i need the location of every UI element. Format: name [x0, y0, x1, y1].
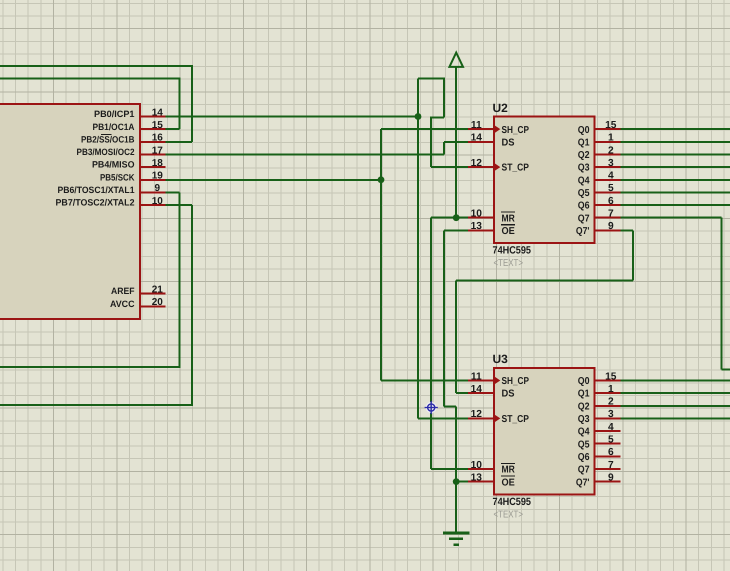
wire PB1 net to pin 15 [165, 128, 179, 130]
svg-text:14: 14 [471, 133, 483, 144]
svg-text:DS: DS [502, 137, 515, 148]
overline of U3 OE [501, 475, 515, 477]
wire latch net vertical up [417, 79, 419, 117]
wire PB1 net vertical [179, 79, 181, 129]
MCU pin 10 PB7/TOSC2/XTAL2 [140, 204, 166, 206]
svg-text:AREF: AREF [111, 286, 135, 296]
U3 pin 10 MR stub [468, 468, 494, 470]
U3 pin 2 Q2 stub [595, 405, 621, 407]
MCU pin 17 PB3/MOSI/OC2 [140, 153, 166, 155]
svg-text:4: 4 [608, 422, 614, 433]
wire Q7 net exit right [721, 368, 730, 370]
svg-text:Q7': Q7' [576, 226, 590, 237]
wire latch net to U2 ST_CP vertical [430, 117, 432, 167]
MCU pin 18 PB4/MISO [140, 166, 166, 168]
svg-text:SH_CP: SH_CP [502, 125, 530, 136]
U2 pin 13 OE stub [468, 229, 494, 231]
U3 pin 12 clock arrow [495, 415, 501, 423]
wire Q7' cascade vertical down [632, 230, 634, 280]
svg-text:PB2/SS/OC1B: PB2/SS/OC1B [81, 134, 135, 144]
wire PB0 latch net from pin 14 [165, 116, 418, 118]
svg-text:9: 9 [608, 472, 614, 483]
svg-text:13: 13 [471, 221, 483, 232]
MCU U1 body (ATmega port B section) [0, 104, 140, 319]
svg-text:10: 10 [152, 196, 164, 207]
svg-text:PB1/OC1A: PB1/OC1A [93, 122, 135, 132]
svg-text:PB5/SCK: PB5/SCK [100, 172, 135, 182]
svg-text:3: 3 [608, 409, 614, 420]
U3 pin 13 OE stub [468, 481, 494, 483]
wire U3 Q0 out [621, 379, 730, 381]
U3 pin 1 Q1 stub [595, 392, 621, 394]
wire U2 Q3 out [621, 166, 730, 168]
wire latch net staple right vertical [443, 79, 445, 118]
U2 pin 15 Q0 stub [595, 128, 621, 130]
U2 pin 14 DS stub [468, 141, 494, 143]
overline of SS in PB2/SS/OC1B [101, 134, 112, 136]
svg-text:17: 17 [152, 145, 164, 156]
svg-text:6: 6 [608, 447, 614, 458]
svg-text:5: 5 [608, 183, 614, 194]
svg-text:MR: MR [502, 213, 516, 224]
U3 pin 3 Q3 stub [595, 417, 621, 419]
U3 pin 11 SH_CP stub [468, 379, 494, 381]
wire U3 Q3 out [621, 417, 730, 419]
MCU pin 19 PB5/SCK [140, 179, 166, 181]
wire VCC vertical from power arrow [455, 67, 457, 218]
svg-text:PB0/ICP1: PB0/ICP1 [94, 109, 135, 119]
wire U2 SH_CP feed [381, 128, 468, 130]
wire Q7' cascade horizontal [456, 280, 633, 282]
wire SCK net vertical [380, 129, 382, 380]
wire U2 Q5 out [621, 191, 730, 193]
junction ground at U3 OE [453, 478, 460, 485]
svg-text:Q2: Q2 [578, 150, 590, 161]
wire MOSI net vertical up [443, 142, 445, 155]
wire U2 Q0 out [621, 128, 730, 130]
svg-text:12: 12 [471, 158, 483, 169]
wire Q7 net vertical [720, 218, 722, 370]
wire U2 Q6 out [621, 204, 730, 206]
svg-text:AVCC: AVCC [110, 299, 135, 309]
svg-text:U2: U2 [493, 101, 509, 115]
junction SCK net at pin 19 wire [378, 176, 385, 183]
wire PB6 net bottom horizontal [0, 366, 181, 368]
svg-text:Q7': Q7' [576, 477, 590, 488]
svg-text:Q7: Q7 [578, 465, 590, 476]
svg-text:Q4: Q4 [578, 427, 590, 438]
svg-text:14: 14 [471, 384, 483, 395]
MCU pin 15 PB1/OC1A [140, 128, 166, 130]
wire PB6 net to pin 9 [165, 191, 179, 193]
svg-text:PB3/MOSI/OC2: PB3/MOSI/OC2 [77, 147, 135, 157]
wire latch net staple top [418, 78, 445, 80]
wire MOSI net from pin 17 [165, 153, 444, 155]
svg-text:9: 9 [155, 183, 161, 194]
U3 pin 14 DS stub [468, 392, 494, 394]
U2 pin 7 Q7 stub [595, 217, 621, 219]
svg-text:Q5: Q5 [578, 188, 590, 199]
svg-text:Q7: Q7 [578, 213, 590, 224]
ground symbol [443, 533, 470, 545]
svg-text:SH_CP: SH_CP [502, 376, 530, 387]
svg-text:Q0: Q0 [578, 125, 590, 136]
junction latch net at pin 14 wire [415, 113, 422, 120]
U3 pin 15 Q0 stub [595, 379, 621, 381]
wire PB1 net top horizontal [0, 78, 181, 80]
U3 pin 7 Q7 stub [595, 468, 621, 470]
wire U3 OE feed [456, 481, 468, 483]
wire PB6 net vertical down [179, 192, 181, 366]
svg-text:14: 14 [152, 107, 164, 118]
overline of U2 MR [501, 211, 515, 213]
svg-text:6: 6 [608, 196, 614, 207]
svg-text:1: 1 [608, 133, 614, 144]
U3 pin 6 Q6 stub [595, 455, 621, 457]
svg-text:4: 4 [608, 171, 614, 182]
overline of U3 MR [501, 462, 515, 464]
U3 pin 5 Q5 stub [595, 443, 621, 445]
U2 pin 4 Q4 stub [595, 179, 621, 181]
svg-text:12: 12 [471, 409, 483, 420]
wire latch net vertical down to U3 [417, 117, 419, 419]
svg-text:MR: MR [502, 465, 516, 476]
wire U3 Q1 out [621, 392, 730, 394]
svg-text:Q6: Q6 [578, 452, 590, 463]
svg-text:11: 11 [471, 120, 482, 131]
U3 pin 9 Q7' stub [595, 481, 621, 483]
svg-text:OE: OE [502, 226, 516, 237]
U2 pin 3 Q3 stub [595, 166, 621, 168]
svg-text:7: 7 [608, 209, 614, 220]
svg-text:3: 3 [608, 158, 614, 169]
wire U2 MR feed [431, 217, 468, 219]
wire OE net vertical to ground [455, 407, 457, 533]
MCU pin 14 PB0/ICP1 [140, 116, 166, 118]
MCU pin 21 AREF [140, 293, 166, 295]
overline of U2 OE [501, 224, 515, 226]
svg-text:PB4/MISO: PB4/MISO [92, 160, 135, 170]
wire U2 Q2 out [621, 153, 730, 155]
wire PB2 net to pin 16 [165, 141, 192, 143]
svg-text:OE: OE [502, 477, 516, 488]
wire U3 ST_CP feed [418, 417, 468, 419]
junction VCC at U2 MR [453, 214, 460, 221]
MCU pin 16 PB2/SS/OC1B [140, 141, 166, 143]
wire PB7 net bottom horizontal [0, 404, 193, 406]
svg-text:Q3: Q3 [578, 163, 590, 174]
svg-text:Q1: Q1 [578, 389, 590, 400]
svg-text:21: 21 [152, 284, 164, 295]
wire U2 Q1 out [621, 141, 730, 143]
wire U2 DS feed [444, 141, 468, 143]
svg-text:Q0: Q0 [578, 376, 590, 387]
svg-text:ST_CP: ST_CP [502, 414, 530, 425]
svg-text:11: 11 [471, 371, 482, 382]
wire U3 DS feed [456, 392, 468, 394]
U2 pin 2 Q2 stub [595, 153, 621, 155]
IC U3 74HC595 body [494, 368, 595, 495]
wire U2 ST_CP feed [431, 166, 468, 168]
MCU pin 9 PB6/TOSC1/XTAL1 [140, 191, 166, 193]
wire U3 MR feed [431, 468, 468, 470]
svg-text:15: 15 [152, 120, 164, 131]
svg-text:20: 20 [152, 297, 164, 308]
U2 pin 11 clock arrow [495, 125, 501, 133]
U2 pin 9 Q7' stub [595, 229, 621, 231]
wire latch net staple jog [430, 116, 444, 118]
U2 pin 10 MR stub [468, 217, 494, 219]
U2 pin 12 clock arrow [495, 163, 501, 171]
svg-text:Q6: Q6 [578, 201, 590, 212]
wire U2 Q4 out [621, 179, 730, 181]
wire MR net vertical to U3 [430, 218, 432, 469]
node origin marker (blue crosshair) [425, 401, 438, 414]
svg-text:1: 1 [608, 384, 614, 395]
svg-text:13: 13 [471, 472, 483, 483]
svg-text:2: 2 [608, 397, 614, 408]
U3 pin 11 clock arrow [495, 377, 501, 385]
svg-text:<TEXT>: <TEXT> [494, 509, 524, 520]
wire U2 Q7' out [621, 229, 633, 231]
wire PB2 net top horizontal [0, 65, 193, 67]
svg-text:Q3: Q3 [578, 414, 590, 425]
svg-text:18: 18 [152, 158, 164, 169]
svg-text:PB6/TOSC1/XTAL1: PB6/TOSC1/XTAL1 [58, 185, 135, 195]
power symbol VCC arrow [449, 53, 463, 67]
svg-text:2: 2 [608, 145, 614, 156]
U2 pin 5 Q5 stub [595, 191, 621, 193]
wire U2 OE feed [444, 229, 468, 231]
svg-text:ST_CP: ST_CP [502, 163, 530, 174]
wire SCK net from pin 19 [165, 179, 381, 181]
svg-text:Q5: Q5 [578, 439, 590, 450]
svg-text:19: 19 [152, 171, 164, 182]
wire U3 Q2 out [621, 405, 730, 407]
svg-text:74HC595: 74HC595 [493, 245, 532, 257]
MCU pin 20 AVCC [140, 305, 166, 307]
U2 pin 11 SH_CP stub [468, 128, 494, 130]
svg-text:U3: U3 [493, 352, 509, 366]
svg-text:PB7/TOSC2/XTAL2: PB7/TOSC2/XTAL2 [56, 198, 135, 208]
svg-text:74HC595: 74HC595 [493, 496, 532, 508]
svg-text:Q1: Q1 [578, 137, 590, 148]
svg-text:10: 10 [471, 460, 483, 471]
wire OE net vertical [443, 230, 445, 406]
wire U2 Q7 out [621, 217, 722, 219]
U3 pin 4 Q4 stub [595, 430, 621, 432]
U2 pin 1 Q1 stub [595, 141, 621, 143]
svg-text:10: 10 [471, 209, 483, 220]
wire PB7 net vertical down [191, 205, 193, 405]
U2 pin 12 ST_CP stub [468, 166, 494, 168]
wire PB2 net vertical [191, 66, 193, 142]
wire Q7' cascade vertical to U3 DS [455, 281, 457, 393]
U3 pin 12 ST_CP stub [468, 417, 494, 419]
wire OE net jog [444, 406, 456, 408]
svg-text:7: 7 [608, 460, 614, 471]
svg-text:5: 5 [608, 435, 614, 446]
svg-text:15: 15 [605, 371, 617, 382]
IC U2 74HC595 body [494, 117, 595, 244]
svg-text:Q4: Q4 [578, 175, 590, 186]
wire U3 SH_CP feed [381, 379, 468, 381]
svg-text:DS: DS [502, 389, 515, 400]
svg-text:Q2: Q2 [578, 401, 590, 412]
svg-text:15: 15 [605, 120, 617, 131]
wire PB7 net to pin 10 [165, 204, 192, 206]
U2 pin 6 Q6 stub [595, 204, 621, 206]
svg-text:16: 16 [152, 133, 164, 144]
svg-text:<TEXT>: <TEXT> [494, 258, 524, 269]
svg-text:9: 9 [608, 221, 614, 232]
